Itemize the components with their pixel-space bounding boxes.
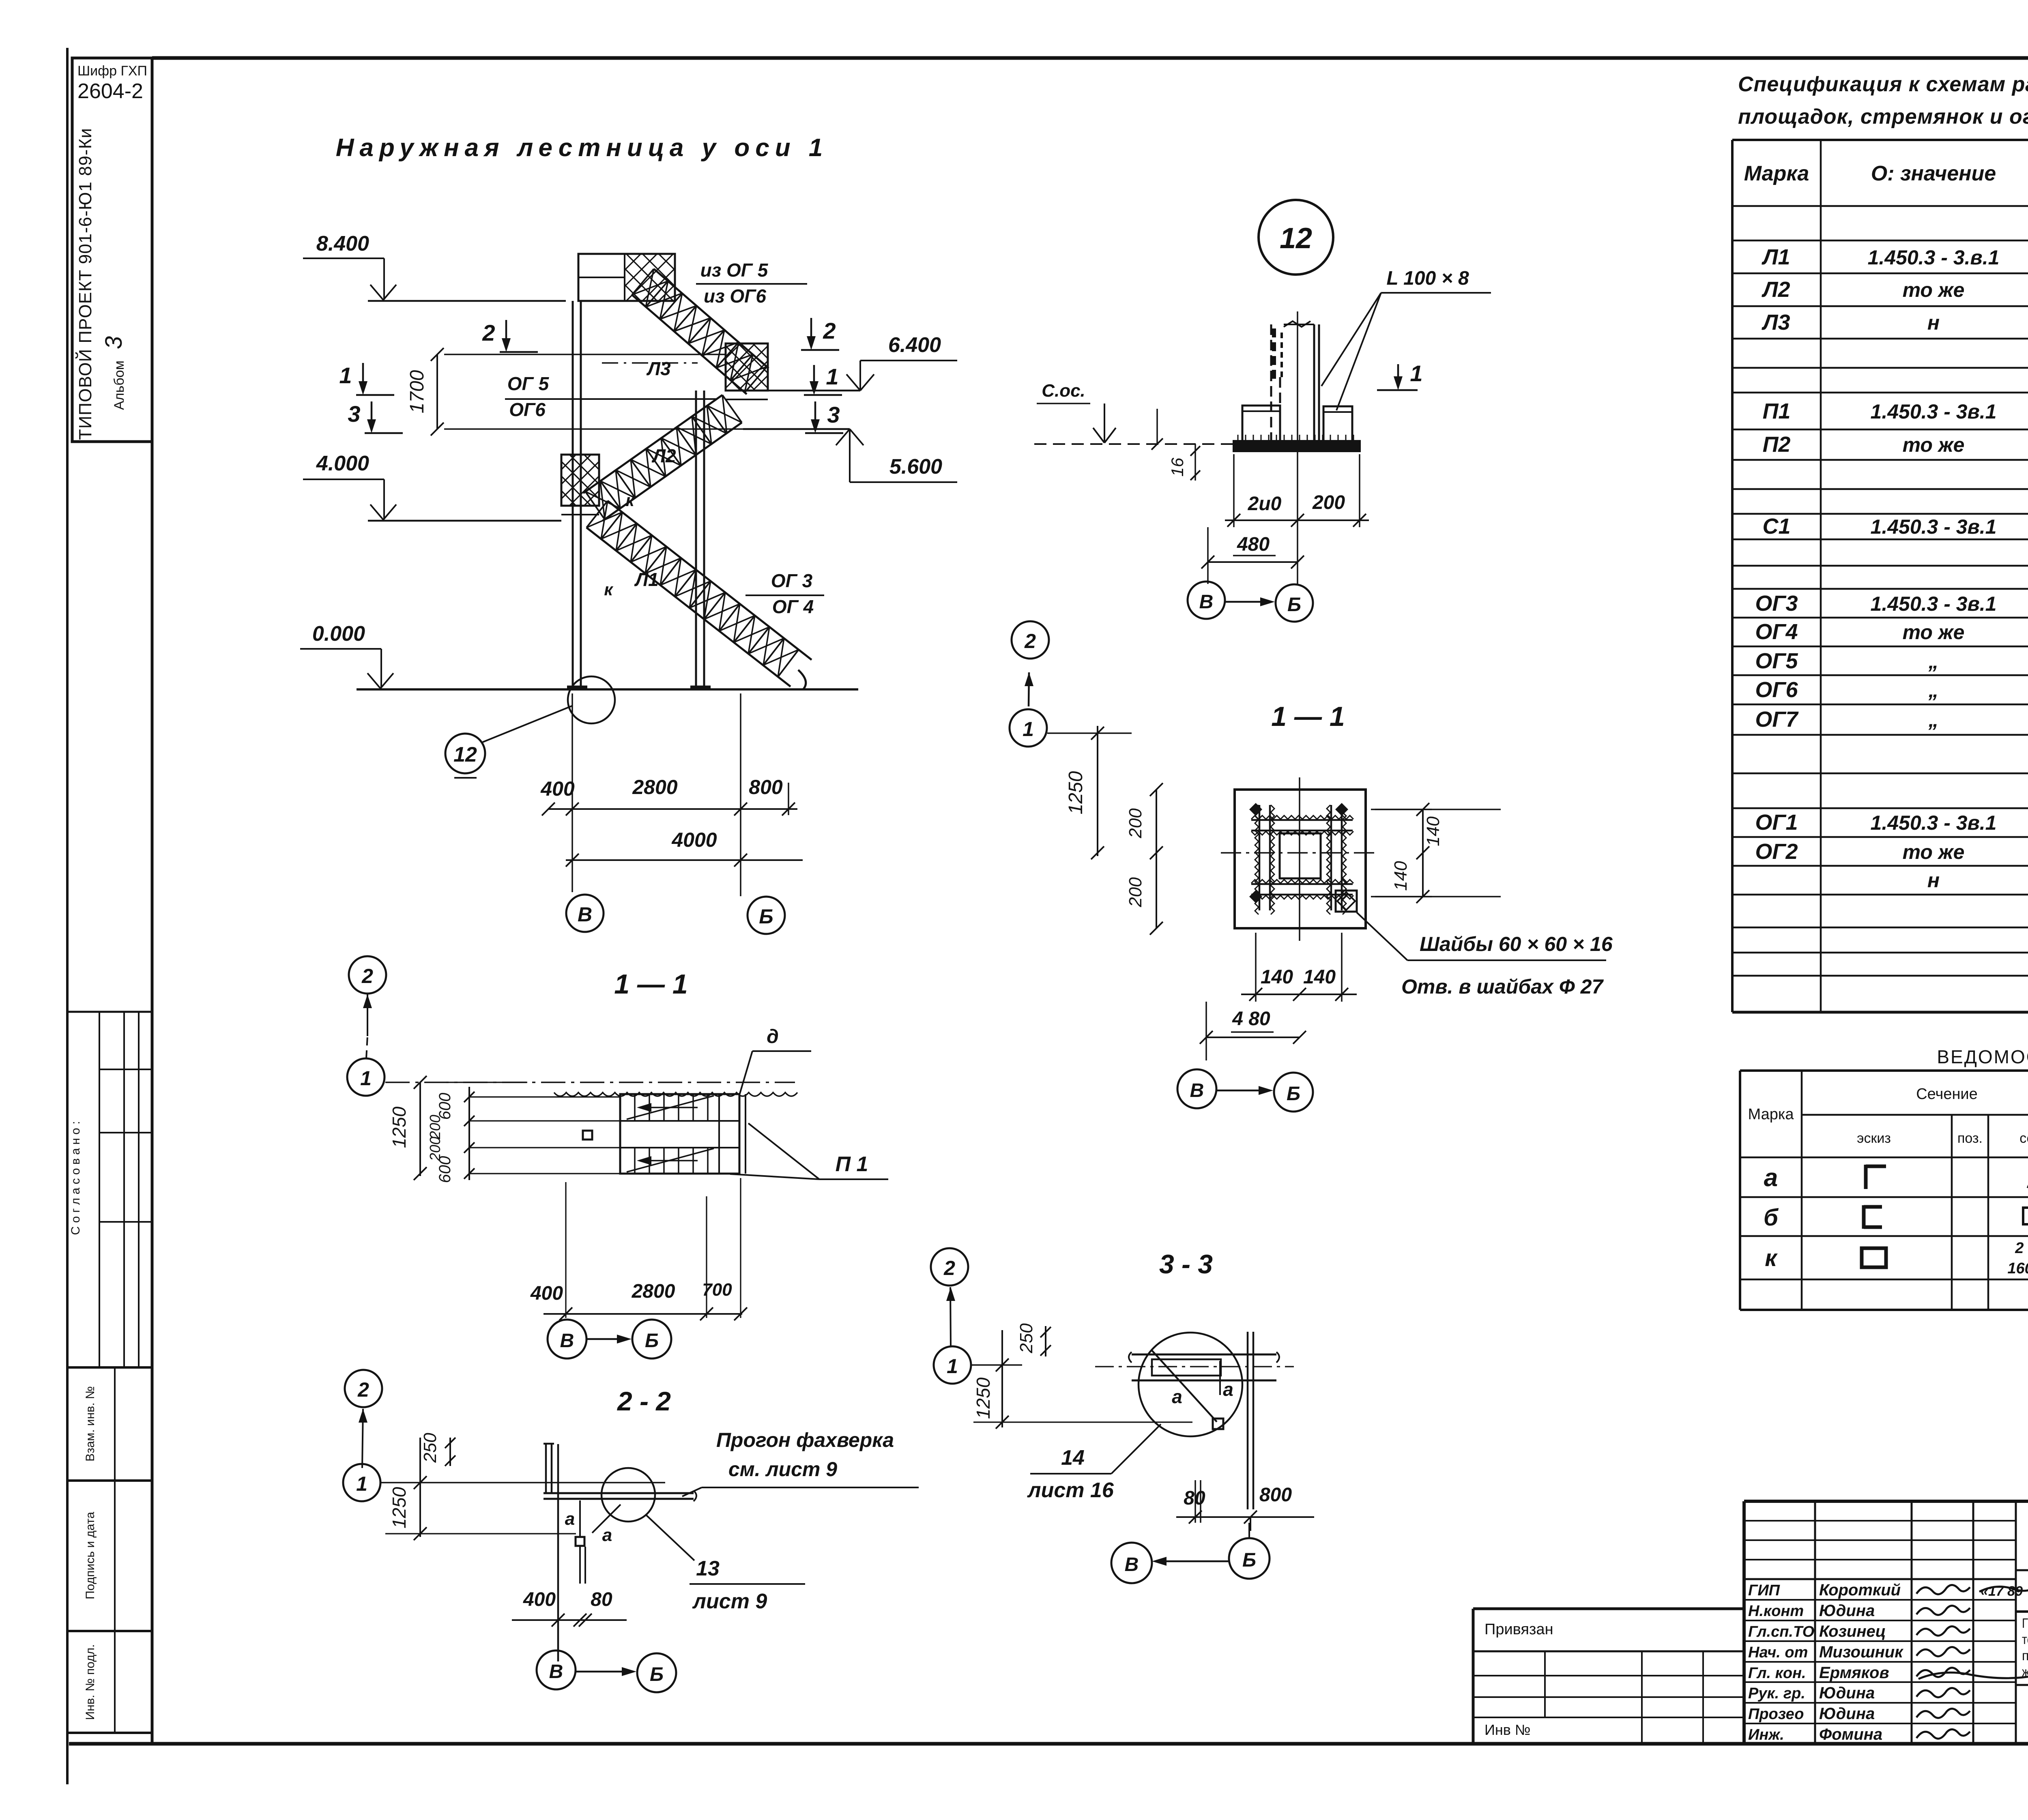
- svg-text:Гл.сп.ТО: Гл.сп.ТО: [1748, 1623, 1814, 1640]
- svg-text:6.400: 6.400: [888, 333, 941, 357]
- svg-text:1: 1: [1410, 361, 1422, 386]
- svg-text:то же: то же: [1903, 279, 1965, 301]
- svg-text:2800: 2800: [632, 776, 677, 798]
- svg-text:Прозео: Прозео: [1748, 1706, 1804, 1723]
- svg-text:2800: 2800: [632, 1281, 675, 1302]
- svg-text:160×80×5: 160×80×5: [2007, 1260, 2028, 1277]
- svg-text:Шайбы 60 × 60 × 16: Шайбы 60 × 60 × 16: [1420, 933, 1613, 955]
- svg-text:480: 480: [1237, 534, 1270, 555]
- svg-text:из ОГ 5: из ОГ 5: [700, 260, 769, 281]
- svg-text:1.450.3 - 3в.1: 1.450.3 - 3в.1: [1871, 592, 1997, 615]
- svg-text:железобетонных элементов: железобетонных элементов: [2022, 1664, 2028, 1679]
- svg-text:Козинец: Козинец: [1819, 1623, 1886, 1640]
- svg-text:В: В: [578, 903, 592, 926]
- svg-text:Б: Б: [1287, 1083, 1300, 1105]
- svg-text:В: В: [1199, 591, 1214, 613]
- svg-text:140: 140: [1391, 861, 1411, 891]
- svg-text:В: В: [549, 1661, 563, 1683]
- svg-text:а: а: [1172, 1386, 1182, 1407]
- svg-text:Градирня двухсекционная с вент: Градирня двухсекционная с вентиля-: [2022, 1616, 2028, 1631]
- svg-text:а: а: [1764, 1164, 1778, 1192]
- svg-text:н: н: [1927, 311, 1940, 334]
- svg-text:ВЕДОМОСТЬ ЭЛЕМЕНТОВ: ВЕДОМОСТЬ ЭЛЕМЕНТОВ: [1937, 1046, 2028, 1067]
- svg-text:Инв. № подл.: Инв. № подл.: [84, 1644, 97, 1720]
- svg-text:13: 13: [696, 1557, 720, 1580]
- svg-text:600: 600: [436, 1156, 454, 1183]
- svg-text:3: 3: [101, 336, 127, 349]
- svg-text:Л1: Л1: [1761, 245, 1790, 269]
- svg-text:3: 3: [348, 401, 360, 427]
- svg-text:лист 9: лист 9: [692, 1590, 767, 1613]
- svg-text:из ОГ6: из ОГ6: [704, 285, 766, 307]
- svg-text:лист 16: лист 16: [1027, 1479, 1114, 1502]
- svg-text:Л1: Л1: [634, 569, 658, 590]
- svg-text:Л3: Л3: [646, 358, 671, 379]
- svg-text:С1: С1: [1762, 514, 1790, 539]
- svg-text:Прогон фахверка: Прогон фахверка: [716, 1429, 894, 1451]
- svg-text:„: „: [1928, 679, 1939, 702]
- svg-text:200: 200: [1312, 492, 1345, 513]
- svg-text:Б: Б: [645, 1330, 659, 1352]
- svg-text:400: 400: [530, 1283, 563, 1304]
- svg-text:а: а: [602, 1525, 612, 1545]
- svg-text:В: В: [1125, 1554, 1139, 1575]
- svg-text:1250: 1250: [389, 1487, 410, 1528]
- svg-text:Б: Б: [1242, 1550, 1256, 1571]
- svg-text:П1: П1: [1763, 399, 1791, 423]
- svg-text:Юдина: Юдина: [1819, 1684, 1875, 1702]
- svg-text:состав: состав: [2019, 1131, 2028, 1146]
- svg-text:200: 200: [427, 1115, 443, 1140]
- svg-text:Отв. в шайбах Ф 27: Отв. в шайбах Ф 27: [1401, 975, 1604, 998]
- svg-text:Подпись и дата: Подпись и дата: [84, 1512, 97, 1599]
- svg-text:Шифр ГХП: Шифр ГХП: [77, 63, 147, 79]
- svg-text:Н.конт: Н.конт: [1748, 1603, 1804, 1620]
- svg-text:П2: П2: [1763, 432, 1791, 457]
- svg-text:80: 80: [591, 1589, 612, 1610]
- svg-text:а: а: [1223, 1379, 1233, 1400]
- svg-text:В: В: [1190, 1080, 1204, 1101]
- svg-text:1.450.3 - 3в.1: 1.450.3 - 3в.1: [1871, 515, 1997, 538]
- svg-text:ОГ6: ОГ6: [509, 399, 546, 420]
- svg-text:1.450.3 - 3.в.1: 1.450.3 - 3.в.1: [1868, 246, 2000, 269]
- svg-text:поз.: поз.: [1957, 1131, 1983, 1146]
- svg-text:1700: 1700: [406, 370, 428, 413]
- svg-text:В: В: [560, 1330, 574, 1352]
- svg-text:2604-2: 2604-2: [77, 79, 143, 103]
- svg-text:то же: то же: [1903, 841, 1965, 863]
- svg-text:400: 400: [540, 777, 575, 800]
- svg-text:1: 1: [826, 364, 838, 389]
- svg-text:П 1: П 1: [836, 1153, 868, 1176]
- svg-text:«17 89: «17 89: [1981, 1584, 2023, 1599]
- svg-text:Привязан: Привязан: [1484, 1621, 1553, 1638]
- svg-text:1.450.3 - 3в.1: 1.450.3 - 3в.1: [1871, 811, 1997, 834]
- svg-text:ОГ2: ОГ2: [1755, 839, 1798, 864]
- svg-text:200: 200: [1126, 808, 1145, 839]
- svg-text:4000: 4000: [671, 828, 717, 851]
- svg-text:Б: Б: [1287, 594, 1301, 616]
- svg-text:1.450.3 - 3в.1: 1.450.3 - 3в.1: [1871, 400, 1997, 423]
- svg-text:то же: то же: [1903, 621, 1965, 644]
- svg-text:то же: то же: [1903, 434, 1965, 456]
- svg-text:ОГ4: ОГ4: [1755, 620, 1798, 644]
- svg-text:Наружная лестница у оси 1: Наружная лестница у оси 1: [336, 134, 829, 162]
- svg-text:8.400: 8.400: [316, 232, 369, 255]
- svg-text:н: н: [1927, 869, 1940, 892]
- svg-text:Инв №: Инв №: [1484, 1721, 1531, 1738]
- svg-text:а: а: [565, 1509, 575, 1529]
- svg-text:1 — 1: 1 — 1: [614, 969, 687, 1000]
- svg-text:1: 1: [339, 363, 352, 388]
- svg-text:Б: Б: [759, 905, 773, 928]
- svg-text:ТИПОВОЙ ПРОЕКТ 901-6-Ю1 89-Ки: ТИПОВОЙ ПРОЕКТ 901-6-Ю1 89-Ки: [75, 128, 95, 440]
- svg-text:Марка: Марка: [1744, 162, 1809, 185]
- svg-text:2: 2: [1024, 630, 1036, 652]
- svg-text:С.ос.: С.ос.: [1042, 381, 1085, 401]
- svg-text:1: 1: [1023, 718, 1034, 740]
- svg-text:2: 2: [482, 320, 495, 346]
- svg-text:ОГ7: ОГ7: [1755, 707, 1799, 732]
- svg-text:Рук. гр.: Рук. гр.: [1748, 1685, 1805, 1702]
- svg-text:к: к: [1765, 1245, 1778, 1271]
- svg-text:Взам. инв. №: Взам. инв. №: [84, 1386, 97, 1462]
- svg-text:2: 2: [823, 318, 836, 343]
- svg-text:Б: Б: [650, 1664, 664, 1685]
- svg-text:L 100 × 8: L 100 × 8: [1386, 268, 1469, 289]
- svg-text:1: 1: [360, 1067, 372, 1090]
- svg-text:800: 800: [1259, 1484, 1292, 1506]
- svg-text:Инж.: Инж.: [1748, 1726, 1784, 1743]
- svg-text:ОГ 5: ОГ 5: [507, 373, 550, 394]
- svg-text:к: к: [604, 580, 613, 599]
- svg-text:ОГ5: ОГ5: [1755, 649, 1798, 673]
- svg-text:1: 1: [356, 1472, 367, 1495]
- svg-text:2u0: 2u0: [1248, 493, 1282, 515]
- svg-text:к: к: [625, 491, 635, 510]
- svg-text:1250: 1250: [973, 1377, 994, 1419]
- svg-text:ОГ3: ОГ3: [1755, 591, 1798, 616]
- svg-text:ГИП: ГИП: [1748, 1582, 1780, 1599]
- svg-text:80: 80: [1184, 1487, 1205, 1509]
- svg-text:Мизошник: Мизошник: [1819, 1643, 1903, 1661]
- svg-text:„: „: [1928, 650, 1939, 673]
- svg-text:О: значение: О: значение: [1871, 162, 1996, 185]
- svg-text:250: 250: [1016, 1323, 1036, 1354]
- svg-text:2: 2: [357, 1378, 369, 1401]
- svg-text:торами 2ВГ50 пленочная с секци: торами 2ВГ50 пленочная с секциями: [2022, 1632, 2028, 1647]
- svg-text:Юдина: Юдина: [1819, 1602, 1875, 1620]
- svg-text:„: „: [1928, 708, 1939, 731]
- svg-text:4 80: 4 80: [1232, 1008, 1270, 1030]
- svg-text:12: 12: [453, 743, 477, 766]
- svg-text:140: 140: [1261, 966, 1293, 988]
- svg-text:Л3: Л3: [1761, 310, 1790, 335]
- svg-text:0.000: 0.000: [312, 622, 365, 646]
- svg-text:площадок, стремянок и ог: площадок, стремянок и ограждений: [1738, 105, 2028, 129]
- svg-text:2 - 2: 2 - 2: [617, 1386, 671, 1416]
- svg-text:Фомина: Фомина: [1819, 1726, 1882, 1743]
- svg-text:ОГ6: ОГ6: [1755, 678, 1798, 702]
- svg-text:см. лист 9: см. лист 9: [728, 1458, 837, 1481]
- svg-text:эскиз: эскиз: [1857, 1131, 1891, 1146]
- svg-text:Гл. кон.: Гл. кон.: [1748, 1665, 1806, 1682]
- svg-text:Юдина: Юдина: [1819, 1705, 1875, 1723]
- svg-text:Короткий: Короткий: [1819, 1581, 1901, 1599]
- svg-text:Альбом: Альбом: [112, 361, 127, 410]
- svg-text:Ермяков: Ермяков: [1819, 1664, 1889, 1682]
- svg-text:2 гн. С: 2 гн. С: [2015, 1240, 2028, 1257]
- svg-text:1250: 1250: [389, 1106, 410, 1148]
- svg-text:С о г л а с о в а н о :: С о г л а с о в а н о :: [69, 1121, 82, 1235]
- svg-text:3 - 3: 3 - 3: [1159, 1249, 1213, 1279]
- svg-text:250: 250: [420, 1433, 440, 1463]
- svg-text:2: 2: [361, 965, 373, 987]
- svg-text:д: д: [767, 1026, 779, 1047]
- svg-text:площадью 64 м² с каркасом и: площадью 64 м² с каркасом из: [2022, 1648, 2028, 1663]
- svg-text:Марка: Марка: [1748, 1106, 1794, 1123]
- svg-text:Спецификация к схемам рас: Спецификация к схемам расположения типов…: [1738, 73, 2028, 96]
- svg-text:б: б: [1764, 1204, 1779, 1231]
- svg-text:ОГ 3: ОГ 3: [771, 570, 813, 591]
- svg-text:140: 140: [1303, 966, 1336, 988]
- svg-text:1: 1: [947, 1355, 958, 1378]
- svg-text:1250: 1250: [1065, 771, 1087, 814]
- svg-text:1 — 1: 1 — 1: [1271, 701, 1345, 732]
- svg-text:Сечение: Сечение: [1916, 1086, 1978, 1103]
- svg-text:Л2: Л2: [651, 445, 676, 466]
- svg-text:16: 16: [1168, 457, 1187, 476]
- svg-text:ОГ 4: ОГ 4: [772, 596, 814, 617]
- svg-text:140: 140: [1423, 816, 1443, 846]
- svg-text:4.000: 4.000: [316, 452, 369, 475]
- svg-text:14: 14: [1061, 1446, 1085, 1470]
- svg-text:5.600: 5.600: [889, 455, 942, 479]
- svg-text:Л2: Л2: [1761, 277, 1790, 302]
- svg-text:200: 200: [1126, 877, 1145, 908]
- svg-text:3: 3: [827, 402, 840, 427]
- svg-text:400: 400: [523, 1589, 556, 1610]
- svg-text:12: 12: [1280, 222, 1312, 255]
- svg-text:ОГ1: ОГ1: [1755, 810, 1798, 835]
- svg-text:2: 2: [943, 1257, 955, 1279]
- svg-text:Нач. от: Нач. от: [1748, 1644, 1808, 1661]
- svg-text:800: 800: [749, 776, 783, 798]
